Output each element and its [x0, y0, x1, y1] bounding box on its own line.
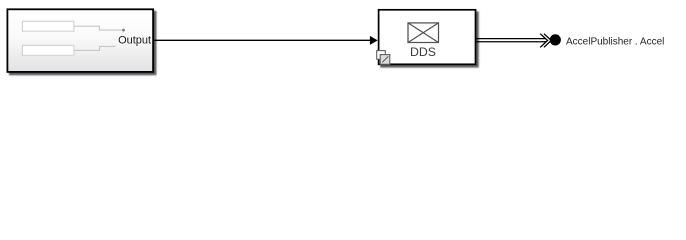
svg-text:AccelPublisher . Accel: AccelPublisher . Accel	[566, 36, 664, 47]
preview wire endpoint dot	[122, 29, 125, 32]
message wire (double line) DDS to topic	[476, 39, 546, 42]
envelope icon	[408, 23, 439, 43]
arrowhead into DDS block	[370, 36, 378, 45]
message arrowhead (double chevron)	[540, 34, 551, 48]
subsystem block (left, port label Output)	[7, 9, 153, 72]
preview wire from rect1	[74, 26, 122, 30]
wire subsystem to DDS block	[154, 39, 371, 41]
DDS block (Publish)	[379, 10, 476, 65]
svg-text:DDS: DDS	[410, 45, 436, 59]
library link badge (back square)	[377, 51, 386, 60]
preview inner block rect1	[22, 21, 74, 31]
preview inner block rect2	[22, 45, 74, 55]
svg-text:Output: Output	[118, 34, 151, 46]
topic node (filled circle)	[550, 34, 561, 45]
library link badge (front square with pencil)	[380, 55, 390, 65]
preview wire from rect2	[74, 46, 116, 50]
